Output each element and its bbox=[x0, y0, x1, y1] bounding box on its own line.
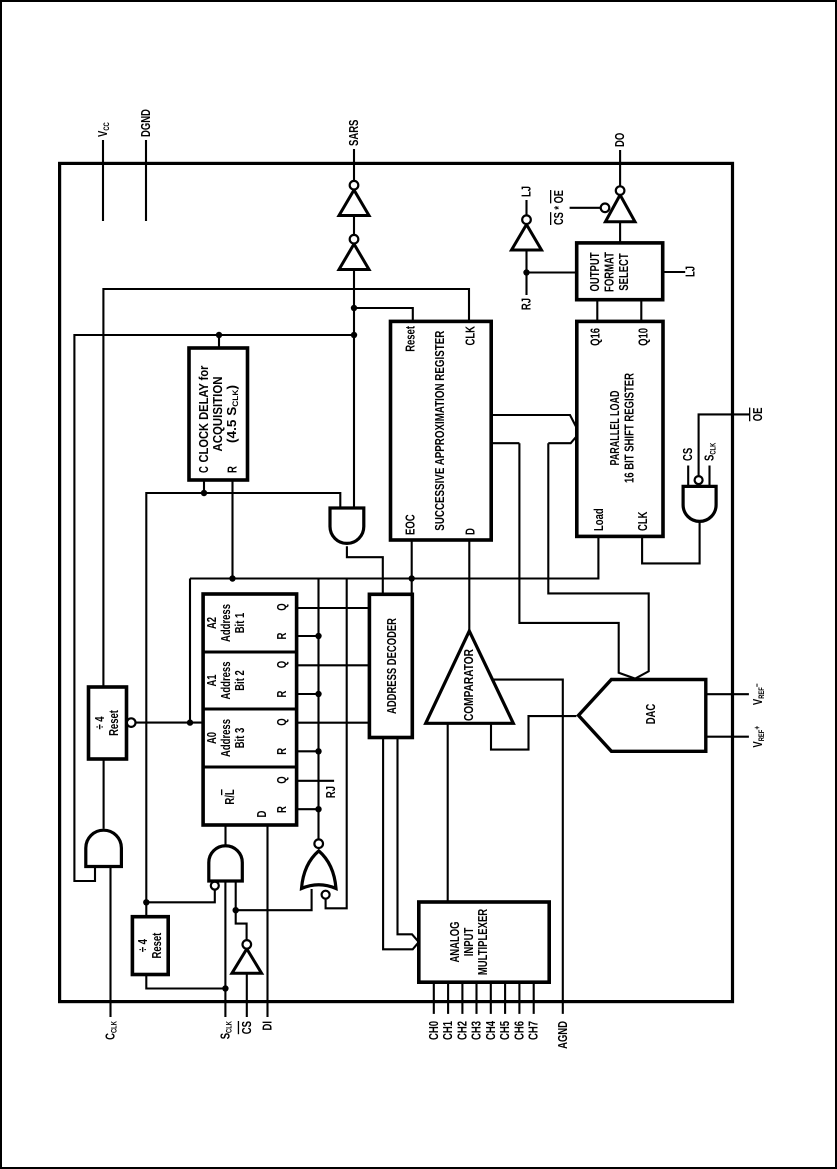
wire U3 reset to FF stack clock node bbox=[136, 722, 203, 724]
tri-state inverter U8 (DO driver) bbox=[605, 195, 635, 222]
wire VREF- pin lead bbox=[706, 693, 749, 695]
bubble U8 output bbox=[616, 186, 625, 195]
wire Q A1 to decoder bbox=[297, 664, 370, 666]
wire G5 output reset rail bbox=[317, 579, 319, 840]
svg-text:R: R bbox=[274, 690, 289, 697]
svg-text:Bit 3: Bit 3 bbox=[232, 728, 247, 749]
inverter U1 (SARS buffer 2) bbox=[339, 190, 369, 216]
svg-text:PARALLEL LOAD: PARALLEL LOAD bbox=[607, 391, 622, 466]
wire Q RL to RJ stub bbox=[297, 780, 335, 782]
wire CH3 pin lead bbox=[475, 982, 477, 1014]
junction rail R3 bbox=[315, 691, 321, 697]
wire comparator output to SAR D bbox=[468, 540, 470, 631]
wire CH7 pin lead bbox=[533, 982, 535, 1014]
svg-text:CS: CS bbox=[239, 1021, 254, 1034]
wire EOC to decoder corner bbox=[411, 540, 413, 594]
bubble G4 inverted input OE bbox=[695, 476, 703, 484]
svg-text:Reset: Reset bbox=[149, 932, 164, 958]
wire SARS internal net bbox=[353, 270, 355, 509]
divider FF RL/A0 bbox=[203, 766, 297, 769]
svg-text:Bit 2: Bit 2 bbox=[232, 670, 247, 691]
svg-text:OE: OE bbox=[750, 407, 765, 421]
wire R stub FF A0 bbox=[297, 750, 319, 752]
wire Q A0 to decoder bbox=[297, 722, 370, 724]
svg-text:INPUT: INPUT bbox=[461, 928, 476, 957]
svg-text:RJ: RJ bbox=[519, 298, 534, 310]
svg-text:CH5: CH5 bbox=[497, 1021, 512, 1040]
block analog input multiplexer bbox=[419, 902, 549, 982]
wire G2 output to FF stack bbox=[224, 825, 226, 845]
junction SARS net and clock-delay feed node bbox=[351, 332, 357, 338]
svg-text:Q16: Q16 bbox=[588, 328, 603, 346]
svg-text:Reset: Reset bbox=[403, 326, 418, 352]
block 16-bit shift register bbox=[577, 321, 663, 536]
wire clock-delay right pin bbox=[218, 335, 220, 348]
wire CH4 pin lead bbox=[490, 982, 492, 1014]
wire SAR Reset branch bbox=[354, 308, 413, 321]
bubble G2 inverted input bbox=[211, 882, 219, 890]
svg-text:AGND: AGND bbox=[555, 1021, 570, 1049]
wire U4 C pin bbox=[203, 480, 205, 493]
svg-text:CH6: CH6 bbox=[511, 1021, 526, 1040]
svg-text:CH4: CH4 bbox=[483, 1020, 498, 1040]
block FF stack outline bbox=[203, 594, 297, 825]
wire AGND net bbox=[493, 680, 563, 1014]
wire CS pin lead bbox=[246, 973, 248, 1017]
svg-text:CLK: CLK bbox=[635, 511, 650, 531]
junction trunk and EOC wire bbox=[409, 575, 415, 581]
svg-text:CS * OE: CS * OE bbox=[551, 190, 566, 225]
block U3 divide-by-4 counter bbox=[89, 687, 127, 759]
NOR gate G5 body bbox=[302, 851, 337, 889]
wire VCC pin lead bbox=[102, 140, 104, 221]
NAND gate G4 body bbox=[683, 486, 716, 521]
wire OFS LJ stub bbox=[663, 271, 686, 273]
svg-text:R: R bbox=[274, 632, 289, 639]
wire CS net to NOR G5 input bbox=[236, 889, 312, 910]
svg-text:CLK: CLK bbox=[463, 326, 478, 346]
wire EOC-Load trunk bbox=[190, 536, 598, 578]
block SAR bbox=[391, 321, 492, 540]
svg-text:DO: DO bbox=[612, 133, 627, 147]
svg-text:MULTIPLEXER: MULTIPLEXER bbox=[475, 908, 490, 975]
bubble G5 inverted input bbox=[322, 891, 330, 899]
svg-text:CH3: CH3 bbox=[469, 1021, 484, 1040]
junction rail R1 bbox=[315, 806, 321, 812]
svg-text:Address: Address bbox=[218, 719, 233, 757]
wire CH0 pin lead bbox=[433, 982, 435, 1014]
inverter U2 (SARS buffer 1) bbox=[339, 244, 369, 270]
junction RJ node bbox=[523, 269, 529, 275]
svg-text:A2: A2 bbox=[204, 617, 219, 629]
bubble U8 enable bbox=[601, 204, 610, 213]
bubble U3 reset input bbox=[127, 718, 136, 727]
junction trunk and clock-delay R bbox=[229, 575, 235, 581]
bus decoder-to-MUX upper outline bbox=[383, 738, 419, 950]
svg-text:DAC: DAC bbox=[643, 703, 658, 724]
bus SAR-to-shiftreg left outline bbox=[491, 415, 577, 428]
svg-text:Address: Address bbox=[218, 604, 233, 642]
svg-text:D: D bbox=[254, 811, 269, 818]
svg-text:Q: Q bbox=[274, 776, 289, 783]
wire G1 output to divider U3 bbox=[103, 759, 105, 829]
wire SARS pin lead bbox=[353, 149, 355, 181]
wire RJ tail bbox=[525, 273, 527, 296]
svg-text:ANALOG: ANALOG bbox=[447, 921, 462, 962]
svg-text:ADDRESS DECODER: ADDRESS DECODER bbox=[384, 618, 399, 714]
wire DAC output to comparator bbox=[491, 716, 576, 750]
svg-text:CH0: CH0 bbox=[426, 1021, 441, 1040]
svg-text:COMPARATOR: COMPARATOR bbox=[461, 649, 476, 721]
bubble U6 output bbox=[243, 940, 252, 949]
svg-text:RJ: RJ bbox=[323, 786, 338, 798]
svg-text:R: R bbox=[225, 466, 240, 473]
block output format select bbox=[577, 243, 663, 300]
wire trunk down to G2 bubble input bbox=[146, 890, 215, 903]
svg-text:DGND: DGND bbox=[138, 109, 153, 137]
wire CH2 pin lead bbox=[461, 982, 463, 1014]
svg-text:EOC: EOC bbox=[403, 514, 418, 535]
block U4 clock delay bbox=[189, 348, 248, 480]
bubble U9 output bbox=[522, 215, 531, 224]
wire R stub FF RL bbox=[297, 808, 319, 810]
bus SAR-to-shiftreg right outline upper part bbox=[491, 442, 519, 444]
wire U8 enable to CS*OE net bbox=[570, 207, 601, 209]
wire VREF+ pin lead bbox=[706, 736, 749, 738]
wire CH6 pin lead bbox=[518, 982, 520, 1014]
junction C pin and reset trunk bbox=[201, 490, 207, 496]
svg-text:CLOCK DELAY for: CLOCK DELAY for bbox=[196, 366, 211, 463]
wire CH1 pin lead bbox=[447, 982, 449, 1014]
wire OE net to G4 bbox=[699, 414, 749, 476]
junction rail R4 bbox=[315, 633, 321, 639]
wire SCLK pin lead bbox=[224, 881, 226, 1017]
svg-text:CH1: CH1 bbox=[440, 1021, 455, 1040]
bubble G5 output bbox=[314, 839, 323, 848]
block address decoder bbox=[369, 594, 412, 737]
svg-text:Bit 1: Bit 1 bbox=[232, 613, 247, 634]
chip outline box bbox=[60, 163, 733, 1001]
AND gate G1 (CCLK gating) bbox=[86, 830, 122, 866]
svg-text:Q: Q bbox=[274, 718, 289, 725]
bubble inverter U1 output bbox=[350, 181, 359, 190]
inverter U9 (RJ to LJ) bbox=[512, 225, 542, 251]
wire SARS feedback net bbox=[74, 335, 354, 881]
junction SARS net and SAR Reset branch node bbox=[351, 305, 357, 311]
wire OFS-Q10 link bbox=[640, 300, 642, 322]
svg-text:Load: Load bbox=[591, 508, 606, 531]
svg-text:A0: A0 bbox=[204, 732, 219, 744]
wire G4 input CS stub bbox=[687, 466, 689, 487]
wire OFS to DO tri-state bbox=[619, 222, 621, 243]
bus branch P1 to DAC bbox=[519, 443, 635, 678]
inverter U6 (CS input) bbox=[232, 949, 262, 973]
svg-text:ACQUISITION: ACQUISITION bbox=[210, 377, 225, 452]
svg-text:Q: Q bbox=[274, 661, 289, 668]
svg-text:R: R bbox=[274, 806, 289, 813]
wire U5 lower pin to SCLK bbox=[146, 975, 225, 989]
wire R stub FF A1 bbox=[297, 693, 319, 695]
wire DGND pin lead bbox=[145, 140, 147, 221]
wire G4 output to shiftreg CLK bbox=[642, 521, 700, 563]
junction reset trunk and U5 top pin bbox=[143, 899, 149, 905]
svg-text:SUCCESSIVE APPROXIMATION REGIS: SUCCESSIVE APPROXIMATION REGISTER bbox=[432, 330, 447, 530]
wire MUX output to comparator bbox=[447, 723, 449, 902]
svg-text:CH2: CH2 bbox=[454, 1021, 469, 1040]
svg-text:÷ 4: ÷ 4 bbox=[135, 938, 150, 952]
wire U4 R pin bbox=[231, 480, 233, 579]
wire EOC reset link bbox=[189, 579, 191, 723]
bus SAR-to-shiftreg right outline lower part bbox=[548, 436, 577, 443]
wire G5 inverted input to EOC net bbox=[326, 579, 347, 909]
junction U5 lower pin and SCLK bbox=[222, 985, 228, 991]
junction CS net and NOR input branch bbox=[233, 907, 239, 913]
svg-text:OUTPUT: OUTPUT bbox=[587, 252, 602, 291]
junction feedback net and clock-delay C-side pin bbox=[216, 332, 222, 338]
AND gate G2 (stack clock gate) bbox=[209, 846, 243, 881]
wire G3 output to decoder bbox=[347, 546, 383, 594]
wire RJ to OFS top pin bbox=[527, 271, 577, 273]
svg-text:LJ: LJ bbox=[519, 186, 534, 197]
svg-text:D: D bbox=[463, 528, 478, 535]
wire reset trunk bbox=[146, 493, 340, 902]
svg-text:Q: Q bbox=[274, 603, 289, 610]
svg-text:Address: Address bbox=[218, 662, 233, 700]
bubble inverter U2 output bbox=[350, 235, 359, 244]
svg-text:16 BIT SHIFT REGISTER: 16 BIT SHIFT REGISTER bbox=[622, 373, 637, 483]
AND gate G3 body bbox=[330, 508, 364, 543]
wire LJ stub bbox=[525, 200, 527, 215]
svg-text:SARS: SARS bbox=[346, 119, 361, 146]
junction rail R2 bbox=[315, 748, 321, 754]
wire CH5 pin lead bbox=[504, 982, 506, 1014]
svg-text:SELECT: SELECT bbox=[616, 253, 631, 290]
wire U6 output jog to CS net bbox=[236, 881, 247, 940]
wire R stub FF A2 bbox=[297, 635, 319, 637]
svg-text:CH7: CH7 bbox=[526, 1021, 541, 1040]
block DAC pentagon bbox=[579, 680, 706, 752]
divider FF A0/A1 bbox=[203, 708, 297, 711]
bus branch P2 to DAC bbox=[548, 443, 648, 678]
wire U5 top pin to trunk bbox=[145, 902, 147, 916]
svg-text:A1: A1 bbox=[204, 674, 219, 686]
wire DI pin lead bbox=[266, 823, 268, 1017]
wire RJ to U9 bbox=[525, 250, 527, 273]
wire Q A2 to decoder bbox=[297, 607, 370, 609]
svg-text:LJ: LJ bbox=[683, 266, 698, 277]
svg-text:DI: DI bbox=[260, 1021, 275, 1031]
svg-text:Q10: Q10 bbox=[636, 328, 651, 346]
wire G4 input SCLK stub bbox=[708, 466, 710, 487]
svg-text:FORMAT: FORMAT bbox=[602, 252, 617, 292]
svg-text:C: C bbox=[196, 466, 211, 473]
wire OFS-Q16 link bbox=[596, 300, 598, 322]
block U5 divide-by-4 counter bbox=[132, 917, 168, 975]
svg-text:CS: CS bbox=[680, 448, 695, 461]
svg-text:R: R bbox=[274, 747, 289, 754]
wire DO pin lead bbox=[619, 150, 621, 186]
divider FF A1/A2 bbox=[203, 651, 297, 654]
wire CCLK pin lead bbox=[109, 867, 111, 1018]
svg-text:Reset: Reset bbox=[106, 710, 121, 736]
junction U3 reset / EOC reset link bbox=[187, 719, 193, 725]
wire U2 to U1 bbox=[353, 216, 355, 235]
comparator U7 body bbox=[426, 631, 514, 723]
bus decoder-to-MUX lower outline bbox=[398, 738, 419, 943]
wire CCLK-divided clock trunk to SAR CLK bbox=[103, 289, 469, 687]
svg-text:÷ 4: ÷ 4 bbox=[92, 716, 107, 730]
svg-text:R/L: R/L bbox=[222, 789, 237, 804]
